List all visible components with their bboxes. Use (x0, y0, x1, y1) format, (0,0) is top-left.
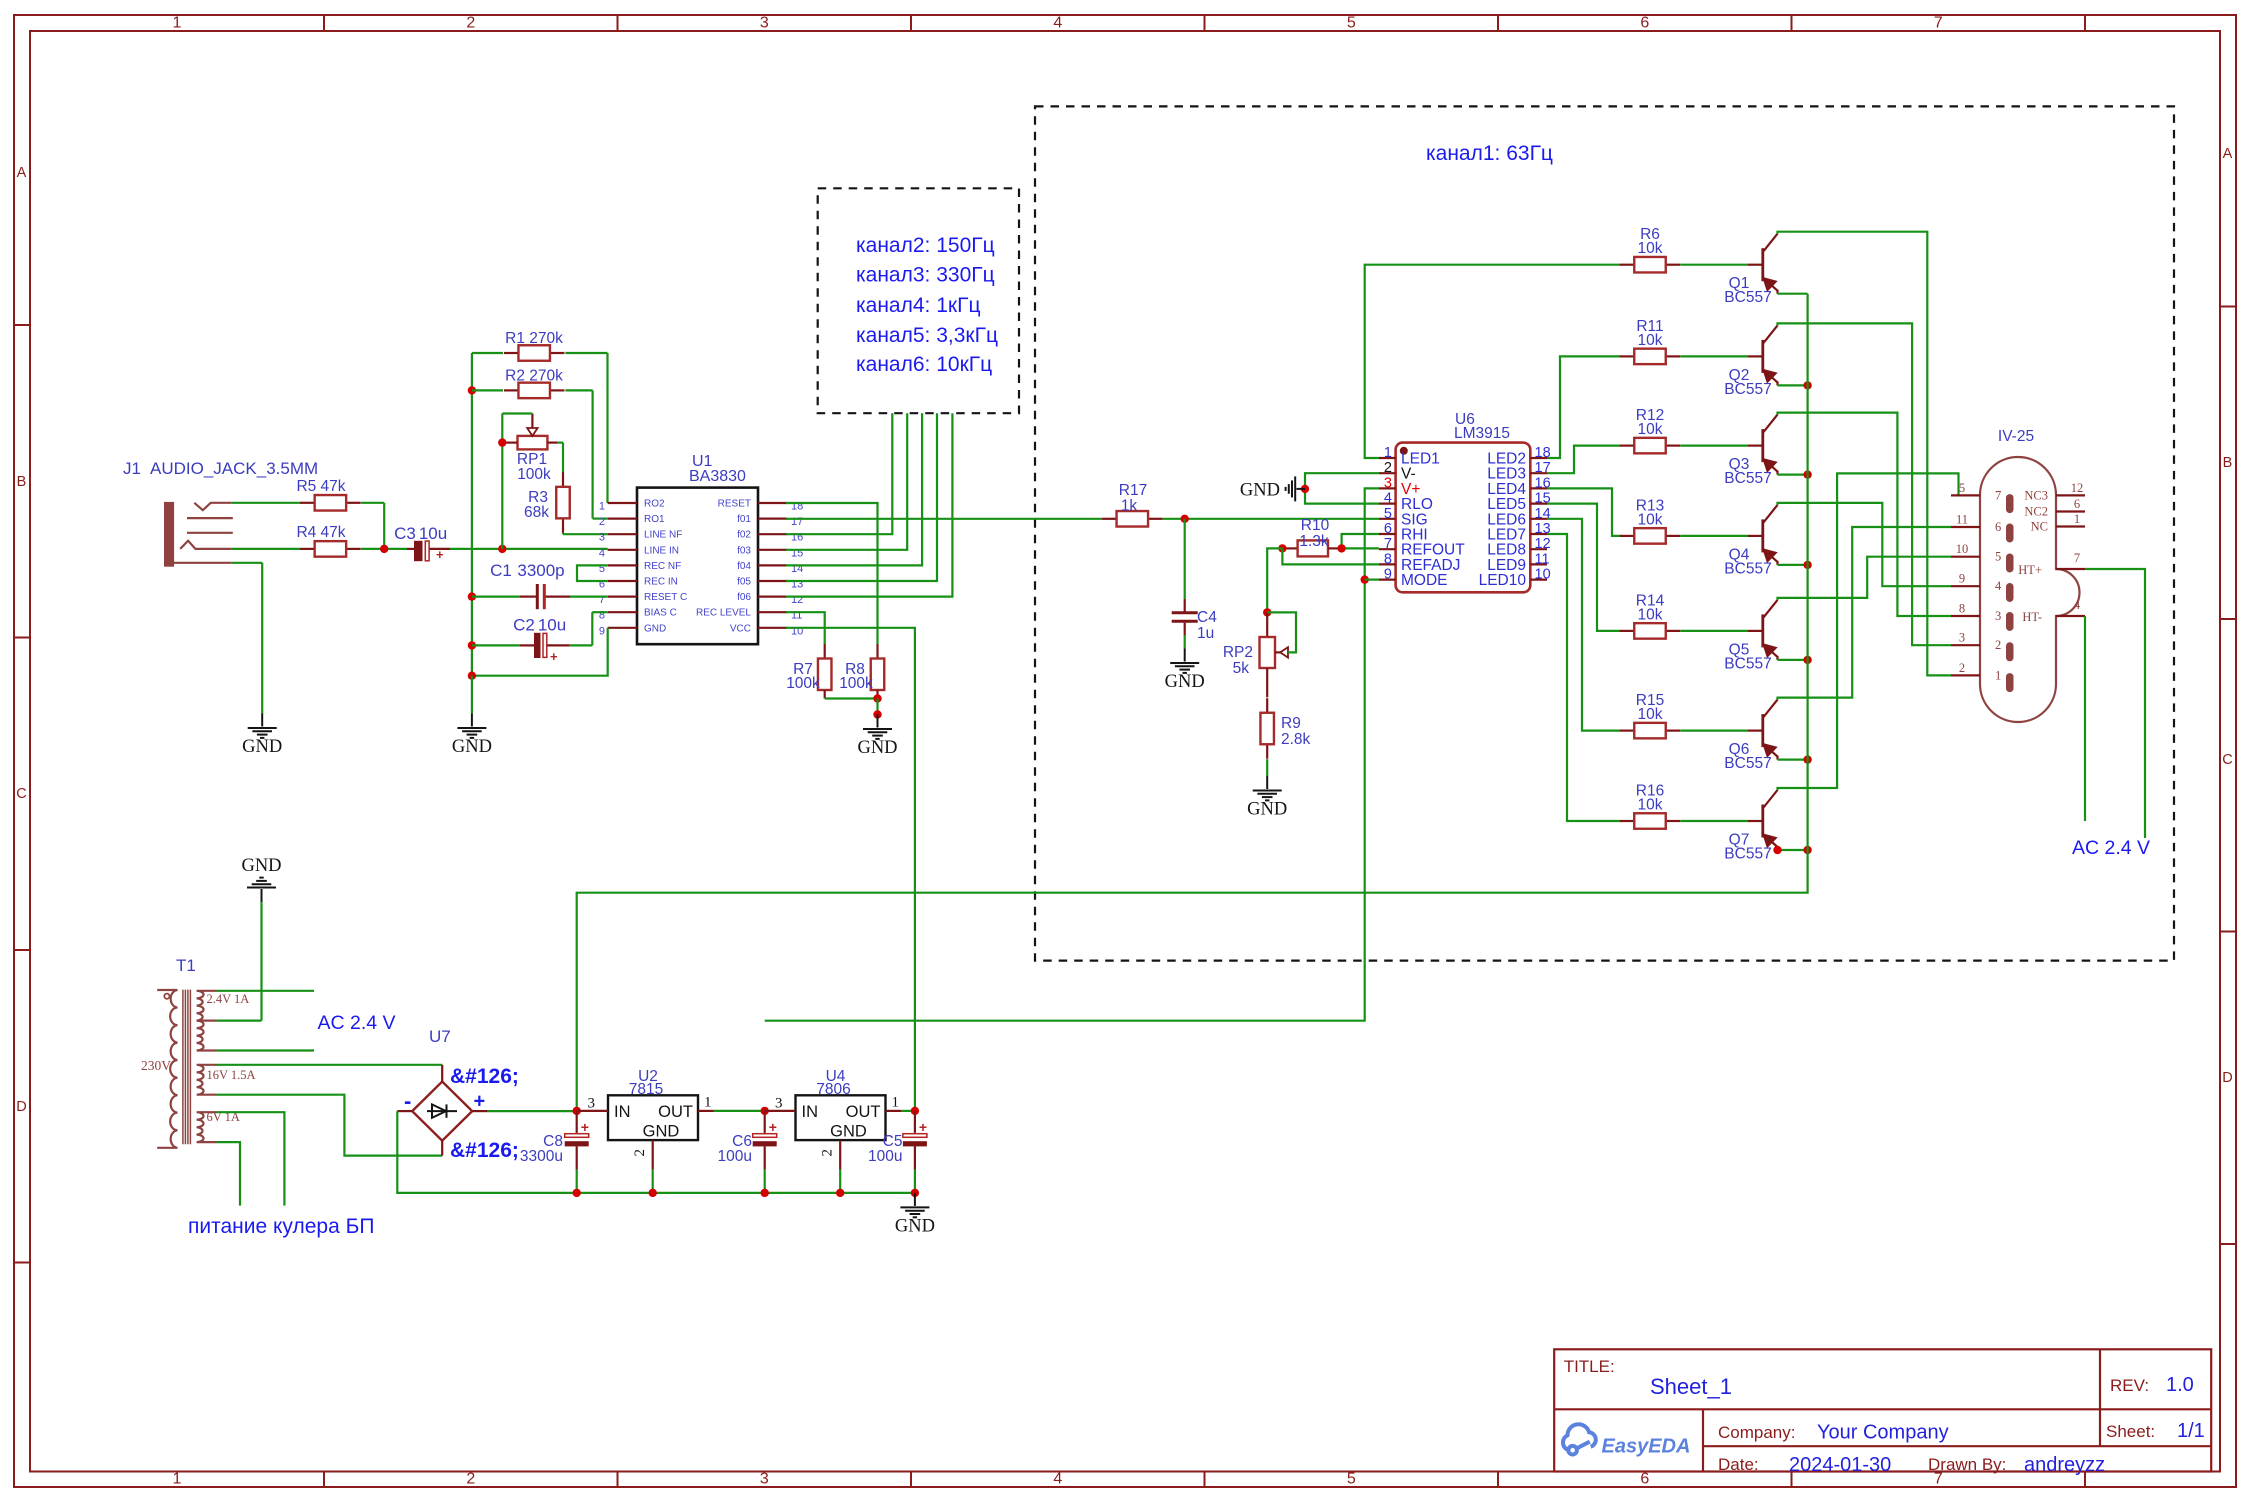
regulator U4 7806 (796, 1095, 886, 1140)
U6 pin 4 RLO (1379, 503, 1396, 505)
ground GND (J1) (248, 714, 277, 738)
U6 pin 18 LED2 (1530, 457, 1547, 459)
U1 pin 1 RO2 (608, 502, 637, 504)
svg-text:6: 6 (1640, 1471, 1649, 1488)
svg-text:3: 3 (775, 1096, 783, 1112)
svg-text:f01: f01 (737, 514, 751, 525)
svg-text:11: 11 (1535, 551, 1550, 567)
wire Q4 collector to tube (1778, 503, 1952, 586)
wire jack tip to R5 (232, 502, 301, 504)
svg-text:5: 5 (1384, 506, 1392, 522)
svg-text:5k: 5k (1233, 660, 1250, 677)
svg-text:R2 270k: R2 270k (505, 368, 563, 385)
svg-text:10k: 10k (1638, 332, 1663, 349)
svg-text:R17: R17 (1119, 482, 1147, 499)
svg-text:REV:: REV: (2110, 1376, 2149, 1395)
svg-text:канал3: 330Гц: канал3: 330Гц (856, 264, 995, 287)
capacitor C3 10u (414, 541, 423, 561)
wire bridge minus to ground rail (397, 1111, 915, 1193)
wire R15 to Q6 base (1680, 729, 1748, 731)
resistor R10 1.3k (1282, 547, 1297, 549)
svg-text:BC557: BC557 (1724, 560, 1771, 577)
transistor Q5 BC557 (1748, 600, 1778, 660)
svg-text:2: 2 (466, 1471, 475, 1488)
svg-text:12: 12 (1535, 536, 1551, 552)
svg-text:REC NF: REC NF (644, 561, 681, 572)
svg-text:GND: GND (644, 623, 666, 634)
svg-text:100k: 100k (786, 675, 820, 692)
svg-text:GND: GND (241, 856, 281, 876)
svg-text:3: 3 (760, 1471, 769, 1488)
svg-text:OUT: OUT (846, 1103, 881, 1121)
wire RP2 to R9 (1266, 668, 1268, 697)
svg-text:-: - (404, 1089, 411, 1114)
wire U1 RESET to R8 (786, 503, 878, 644)
svg-text:10k: 10k (1638, 606, 1663, 623)
resistor R16 10k (1620, 820, 1635, 822)
resistor R3 68k (562, 472, 564, 487)
transistor Q6 BC557 (1748, 700, 1778, 760)
svg-text:5: 5 (1995, 550, 2001, 564)
resistor R11 10k (1620, 355, 1635, 357)
svg-text:канал1: 63Гц: канал1: 63Гц (1426, 142, 1553, 165)
svg-text:9: 9 (1384, 567, 1392, 583)
wire Q4 emitter (1778, 564, 1808, 566)
resistor R4 (300, 548, 315, 550)
transformer core (182, 990, 184, 1145)
svg-text:R4 47k: R4 47k (296, 524, 345, 541)
wire R13 to Q4 base (1680, 535, 1748, 537)
svg-text:10k: 10k (1638, 797, 1663, 814)
svg-text:1k: 1k (1121, 498, 1138, 515)
svg-text:1u: 1u (1197, 625, 1214, 642)
tube pin 6 NC2 (2056, 510, 2085, 512)
svg-text:68k: 68k (524, 504, 549, 521)
svg-text:IV-25: IV-25 (1998, 428, 2034, 445)
svg-text:R5 47k: R5 47k (296, 478, 345, 495)
wire C3 to U1 LINE IN (430, 548, 451, 550)
svg-text:1: 1 (704, 1095, 712, 1111)
svg-text:2: 2 (466, 15, 475, 32)
svg-text:6: 6 (1995, 520, 2001, 534)
svg-text:9: 9 (1959, 572, 1965, 586)
ground GND (R9) (1266, 759, 1268, 776)
wire R14 to Q5 base (1680, 630, 1748, 632)
U6 pin 5 SIG (1379, 518, 1396, 520)
svg-text:LM3915: LM3915 (1454, 425, 1510, 442)
ground GND (C4) (1170, 649, 1199, 673)
svg-text:канал4: 1кГц: канал4: 1кГц (856, 294, 980, 317)
svg-text:10: 10 (1956, 542, 1969, 556)
svg-text:T1: T1 (176, 956, 196, 975)
svg-text:100k: 100k (839, 675, 873, 692)
wire R1 to U1 pin1 (565, 352, 607, 354)
svg-text:f03: f03 (737, 545, 751, 556)
svg-text:2: 2 (1384, 460, 1392, 476)
svg-text:RESET C: RESET C (644, 592, 687, 603)
svg-text:GND: GND (643, 1123, 680, 1141)
wire U1 VCC to +6V rail (786, 628, 915, 1111)
svg-text:10u: 10u (419, 524, 447, 543)
svg-text:Drawn By:: Drawn By: (1928, 1455, 2006, 1474)
bridge diode mark (427, 1104, 457, 1117)
svg-text:7806: 7806 (816, 1081, 850, 1098)
svg-text:f04: f04 (737, 561, 751, 572)
svg-text:10k: 10k (1638, 706, 1663, 723)
U6 pin 13 LED7 (1530, 533, 1547, 535)
wiper return wire RP2 (1267, 612, 1296, 652)
junction ground rail at C5 (911, 1189, 919, 1197)
U1 pin 12 f06 (758, 595, 787, 597)
svg-text:GND: GND (1165, 672, 1205, 692)
wire LM3915 output to R12 (1547, 446, 1620, 474)
svg-text:C3: C3 (394, 524, 416, 543)
svg-text:B: B (17, 474, 27, 490)
svg-text:3300u: 3300u (520, 1148, 563, 1165)
U1 pin 14 f04 (758, 564, 787, 566)
svg-text:HT-: HT- (2022, 610, 2042, 624)
svg-text:11: 11 (1956, 513, 1968, 527)
U6 pin 2 V- (1379, 472, 1396, 474)
svg-text:16V 1.5A: 16V 1.5A (207, 1068, 256, 1082)
svg-text:100k: 100k (517, 466, 551, 483)
svg-text:1: 1 (173, 15, 182, 32)
wire Q3 collector to tube (1778, 413, 1952, 616)
svg-text:10k: 10k (1638, 240, 1663, 257)
svg-text:2.4V 1A: 2.4V 1A (207, 992, 250, 1006)
tube segment anodes (2006, 494, 2014, 513)
IC U1 BA3830 (637, 488, 758, 645)
svg-text:5: 5 (1347, 15, 1356, 32)
junction ground rail at C6 (761, 1189, 769, 1197)
U6 pin 11 LED9 (1530, 563, 1547, 565)
wire HT+ to AC net (2085, 569, 2145, 838)
capacitor C1 3300p (468, 592, 476, 600)
tube pin 5 (net 10) (1951, 556, 1980, 558)
U6 pin 15 LED5 (1530, 503, 1547, 505)
ground GND (R7 R8) (863, 715, 892, 739)
svg-text:RESET: RESET (718, 499, 751, 510)
svg-text:8: 8 (1384, 551, 1392, 567)
wire f06 to channel box (786, 413, 952, 596)
wire U6 REFADJ (1282, 548, 1379, 564)
svg-text:3: 3 (599, 532, 605, 544)
svg-text:+: + (581, 1119, 589, 1135)
svg-text:GND: GND (1247, 800, 1287, 820)
U1 pin5-pin6 loop (577, 565, 608, 581)
transistor Q2 BC557 (1748, 325, 1778, 385)
svg-text:3: 3 (760, 15, 769, 32)
IC U6 LM3915 (1396, 443, 1531, 593)
dashed box channel 1 (1035, 106, 2174, 960)
svg-text:f06: f06 (737, 592, 751, 603)
node R4/R5/C3 (361, 548, 407, 550)
U1 pin 7 RESET C (608, 595, 637, 597)
svg-text:R9: R9 (1281, 715, 1301, 732)
dashed box channel list (818, 188, 1019, 413)
VFD tube IV-25 (1980, 457, 2080, 722)
svg-text:EasyEDA: EasyEDA (1602, 1436, 1691, 1458)
svg-text:GND: GND (830, 1123, 867, 1141)
wire R12 to Q3 base (1680, 445, 1748, 447)
wire R3 to U1 pin3 (562, 533, 564, 534)
resistor R7 100k (824, 644, 826, 659)
svg-text:канал6: 10кГц: канал6: 10кГц (856, 353, 992, 376)
svg-text:10k: 10k (1638, 421, 1663, 438)
wire Q7 emitter (1778, 849, 1808, 851)
U1 pin 15 f03 (758, 549, 787, 551)
svg-text:+: + (474, 1091, 486, 1113)
wire RP1 right to R3 (557, 442, 563, 444)
svg-text:1.0: 1.0 (2166, 1374, 2194, 1396)
svg-text:1/1: 1/1 (2177, 1420, 2205, 1442)
capacitor C6 100u (761, 1107, 769, 1115)
resistor R6 10k (1620, 264, 1635, 266)
svg-text:8: 8 (1959, 602, 1965, 616)
svg-text:R1 270k: R1 270k (505, 330, 563, 347)
transistor Q1 BC557 (1748, 234, 1778, 294)
svg-text:BIAS C: BIAS C (644, 608, 677, 619)
U1 pin 2 RO1 (608, 517, 637, 519)
resistor R5 (300, 502, 315, 504)
U1 pin 5 REC NF (608, 564, 637, 566)
svg-text:2: 2 (820, 1149, 836, 1157)
svg-text:C1: C1 (490, 561, 512, 580)
wire Q7 collector to tube (1778, 473, 1959, 790)
wire f02 to channel box (786, 413, 892, 534)
svg-text:VCC: VCC (730, 623, 751, 634)
svg-text:Your Company: Your Company (1817, 1422, 1949, 1444)
svg-text:IN: IN (802, 1103, 819, 1121)
resistor R2 270k (468, 386, 476, 394)
wire Q6 emitter (1778, 758, 1808, 760)
wire R6 to Q1 base (1680, 264, 1748, 266)
wire LM3915 output to R16 (1547, 534, 1620, 821)
wire U2 out to C6 (714, 1110, 765, 1112)
EasyEDA logo (1563, 1424, 1596, 1454)
wire Q3 emitter (1778, 474, 1808, 476)
svg-text:1: 1 (892, 1095, 900, 1111)
resistor R13 10k (1620, 535, 1635, 537)
svg-text:2.8k: 2.8k (1281, 731, 1311, 748)
svg-text:7: 7 (2074, 551, 2080, 565)
U6 pin 8 REFADJ (1379, 563, 1396, 565)
svg-text:3: 3 (1384, 475, 1392, 491)
svg-text:4: 4 (1053, 1471, 1062, 1488)
svg-text:NC2: NC2 (2024, 505, 2048, 519)
svg-text:A: A (2223, 146, 2233, 162)
svg-text:GND: GND (452, 737, 492, 757)
wires 16V winding to bridge (217, 1064, 443, 1066)
svg-text:3300p: 3300p (517, 561, 564, 580)
svg-text:NC: NC (2031, 520, 2048, 534)
wire R16 to Q7 base (1680, 820, 1748, 822)
svg-text:R10: R10 (1301, 517, 1330, 534)
emitter rail (577, 294, 1808, 1111)
svg-text:B: B (2223, 455, 2233, 471)
svg-text:andreyzz: andreyzz (2024, 1454, 2105, 1476)
wires 6V winding (cooler supply) (217, 1112, 285, 1205)
svg-text:OUT: OUT (658, 1103, 693, 1121)
svg-text:AC 2.4 V: AC 2.4 V (318, 1012, 396, 1034)
tube heater pins HT+ HT- (2056, 568, 2085, 570)
wire R2 to U1 pin2 (565, 389, 592, 391)
svg-text:3: 3 (1995, 609, 2001, 623)
svg-text:7815: 7815 (629, 1081, 663, 1098)
svg-text:C: C (2222, 752, 2232, 768)
resistor R8 100k (876, 644, 878, 659)
svg-text:2: 2 (599, 516, 605, 528)
U6 pin 17 LED3 (1530, 472, 1547, 474)
U6 pin 16 LED4 (1530, 487, 1547, 489)
wire Q1 emitter (1778, 293, 1808, 295)
svg-text:BA3830: BA3830 (689, 468, 746, 485)
svg-text:3: 3 (1959, 631, 1965, 645)
tube pin 6 (net 11) (1951, 526, 1980, 528)
svg-text:4: 4 (2074, 598, 2081, 612)
ground GND (power rail) (900, 1193, 929, 1217)
svg-text:REC LEVEL: REC LEVEL (696, 608, 751, 619)
capacitor C4 1u (1184, 519, 1186, 599)
phase dot (164, 994, 169, 999)
wire f03 to channel box (786, 413, 907, 550)
title block (1554, 1349, 2211, 1471)
svg-text:2: 2 (1959, 661, 1965, 675)
svg-text:4: 4 (599, 547, 605, 559)
wire R5 to R4 node (361, 502, 384, 504)
svg-text:+: + (550, 649, 558, 664)
wire LM3915 output to R11 (1547, 356, 1620, 458)
svg-text:BC557: BC557 (1724, 381, 1771, 398)
svg-text:7: 7 (1384, 536, 1392, 552)
capacitor C2 10u (468, 641, 476, 649)
svg-text:RO1: RO1 (644, 514, 665, 525)
svg-text:C4: C4 (1197, 609, 1217, 626)
resistor R17 1k (1102, 518, 1117, 520)
svg-text:BC557: BC557 (1724, 289, 1771, 306)
svg-text:GND: GND (1240, 481, 1280, 501)
ground GND (U6 V-) rotated (1305, 473, 1379, 489)
wiper wire RP1 (502, 412, 532, 414)
U6 pin 10 LED10 (1530, 578, 1547, 580)
svg-text:&#126;: &#126; (450, 1139, 519, 1162)
svg-text:C: C (16, 786, 26, 802)
wire U6 RHI (1342, 534, 1379, 548)
U1 pin 18 RESET (758, 502, 787, 504)
svg-text:230V: 230V (141, 1058, 171, 1073)
svg-text:HT+: HT+ (2018, 563, 2042, 577)
junction ground rail at C8 (573, 1189, 581, 1197)
U1 pin 11 REC LEVEL (758, 611, 787, 613)
U1 pin 8 BIAS C (608, 611, 637, 613)
svg-text:+: + (919, 1119, 927, 1135)
svg-text:U7: U7 (429, 1027, 451, 1046)
svg-text:A: A (17, 165, 27, 181)
left bias vertical (471, 353, 473, 676)
U6 pin 7 REFOUT (1379, 548, 1396, 550)
svg-text:4: 4 (1384, 491, 1392, 507)
transistor Q7 BC557 (1748, 790, 1778, 850)
ground GND (center tap, flipped) (247, 878, 276, 903)
U1 pin 17 f01 (758, 517, 787, 519)
svg-text:12: 12 (2071, 481, 2084, 495)
svg-text:канал5: 3,3кГц: канал5: 3,3кГц (856, 324, 998, 347)
wire Q2 emitter (1778, 384, 1808, 386)
wire R10 left down to RP2 (1267, 548, 1282, 612)
svg-text:LINE NF: LINE NF (644, 530, 682, 541)
svg-text:4: 4 (1053, 15, 1062, 32)
svg-text:1: 1 (599, 501, 605, 513)
svg-text:100u: 100u (868, 1148, 902, 1165)
ground GND (U1) (471, 676, 473, 714)
svg-text:1.3k: 1.3k (1299, 533, 1329, 550)
wire R17 to U6 SIG (1163, 518, 1379, 520)
wire LM3915 output to R14 (1547, 504, 1620, 631)
tube pin 3 (net 8) (1951, 615, 1980, 617)
svg-text:LED10: LED10 (1479, 572, 1527, 589)
svg-text:6: 6 (1384, 521, 1392, 537)
svg-text:канал2: 150Гц: канал2: 150Гц (856, 234, 995, 257)
svg-text:D: D (2222, 1070, 2232, 1086)
U6 pin 12 LED8 (1530, 548, 1547, 550)
center tap to GND (217, 1019, 262, 1021)
U6 pin 9 MODE (1379, 578, 1396, 580)
svg-text:4: 4 (1995, 579, 2002, 593)
wire Q2 collector to tube (1778, 323, 1952, 645)
svg-text:LINE IN: LINE IN (644, 545, 679, 556)
wire jack sleeve down (232, 562, 263, 564)
svg-text:C2: C2 (513, 616, 535, 635)
U1 pin 16 f02 (758, 533, 787, 535)
wire Q5 collector to tube (1778, 557, 1952, 600)
svg-text:5: 5 (1347, 1471, 1356, 1488)
U1 pin 3 LINE NF (608, 533, 637, 535)
wire f01 signal (786, 518, 1102, 520)
U1 pin 4 LINE IN (608, 549, 637, 551)
U1 pin 6 REC IN (608, 580, 637, 582)
U6 pin 3 V+ (1379, 487, 1396, 489)
svg-text:BC557: BC557 (1724, 655, 1771, 672)
regulator U2 7815 (608, 1095, 698, 1140)
wire f04 to channel box (786, 413, 922, 565)
wire R7/R8 bottoms (825, 697, 878, 699)
wire bridge plus to C8/U2 (488, 1110, 577, 1112)
wire U6 MODE / V+ riser (765, 488, 1379, 1020)
svg-text:5: 5 (1959, 481, 1965, 495)
svg-text:6: 6 (1640, 15, 1649, 32)
potentiometer RP2 5k (1266, 612, 1268, 637)
wire LM3915 output to R15 (1547, 519, 1620, 731)
connector J1 AUDIO_JACK_3.5MM (165, 503, 233, 566)
svg-text:Date:: Date: (1718, 1455, 1759, 1474)
svg-text:3: 3 (588, 1096, 596, 1112)
svg-text:REC IN: REC IN (644, 577, 678, 588)
svg-text:GND: GND (857, 738, 897, 758)
svg-text:f05: f05 (737, 577, 751, 588)
svg-text:2024-01-30: 2024-01-30 (1789, 1454, 1891, 1476)
wire Q6 collector to tube (1778, 527, 1952, 700)
potentiometer RP1 100k (518, 436, 548, 450)
svg-text:&#126;: &#126; (450, 1065, 519, 1088)
svg-text:2: 2 (632, 1149, 648, 1157)
svg-text:1: 1 (1384, 445, 1392, 461)
wire HT- to AC net (2084, 616, 2086, 821)
tube pin 12 NC3 (2056, 494, 2085, 496)
svg-text:Sheet_1: Sheet_1 (1650, 1374, 1732, 1399)
svg-text:Sheet:: Sheet: (2106, 1422, 2155, 1441)
wire Q1 collector to tube (1778, 232, 1952, 676)
svg-text:RP2: RP2 (1223, 644, 1253, 661)
